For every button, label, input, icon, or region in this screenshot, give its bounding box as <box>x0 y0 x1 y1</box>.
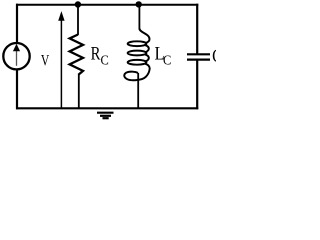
wire top rail <box>16 4 198 6</box>
node junction dot A <box>75 1 81 7</box>
wire resistor bottom stub <box>78 74 80 108</box>
wire inductor bottom stub <box>137 73 139 109</box>
wire inductor top stub <box>138 4 140 29</box>
node voltage arrow V <box>58 11 64 108</box>
svg-text:C: C <box>163 53 171 68</box>
svg-text:R: R <box>91 44 101 65</box>
wire resistor top stub <box>77 5 79 36</box>
capacitor C1 <box>187 54 210 59</box>
wire right rail upper <box>196 4 198 54</box>
inductor LC <box>124 28 149 80</box>
svg-text:C: C <box>101 53 109 68</box>
node junction dot B <box>136 1 142 7</box>
wire bottom rail <box>16 107 198 109</box>
svg-text:V: V <box>41 52 49 69</box>
resistor RC <box>70 35 83 75</box>
svg-text:C: C <box>212 47 216 67</box>
current source I1 <box>3 43 29 69</box>
wire left rail lower <box>16 69 18 109</box>
wire left rail upper <box>16 4 18 43</box>
wire right rail lower <box>196 60 198 110</box>
ground <box>97 113 114 119</box>
